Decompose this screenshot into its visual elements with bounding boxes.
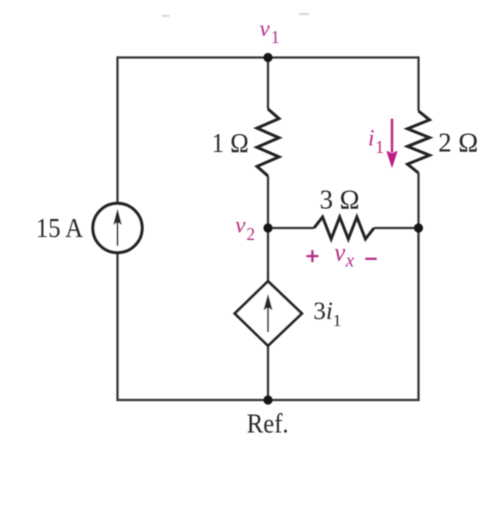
node v1 junction dot <box>263 53 272 62</box>
wire right lower (2-ohm resistor to bottom rail) <box>417 173 419 401</box>
node right junction dot (3-ohm to right branch) <box>414 223 423 232</box>
label vx plus sign <box>306 250 318 262</box>
wire 3-ohm resistor to right branch <box>374 227 419 229</box>
svg-text:15 A: 15 A <box>36 213 84 243</box>
svg-text:Ref.: Ref. <box>247 408 289 438</box>
stray print mark left <box>162 15 170 17</box>
wire left upper (top rail to current source) <box>116 56 118 204</box>
wire v2 to dependent source top <box>267 228 269 282</box>
label 3 ohm <box>320 184 360 214</box>
node v2 junction dot <box>263 223 272 232</box>
resistor R2 2-ohm (vertical zigzag) <box>408 111 430 173</box>
wire v2 node to 3-ohm resistor <box>268 227 314 229</box>
wire right upper (top rail to 2-ohm resistor) <box>417 56 419 111</box>
wire left lower (current source to bottom rail) <box>116 253 118 402</box>
current i1 arrow (magenta, downward) <box>387 119 397 167</box>
svg-text:1 Ω: 1 Ω <box>212 128 249 158</box>
label 2 ohm <box>438 128 478 158</box>
label 3i1 (dependent source value) <box>313 298 341 330</box>
resistor R3 3-ohm (horizontal zigzag) <box>314 217 374 239</box>
dependent current source 3i1 (diamond) <box>235 281 302 345</box>
resistor R1 1-ohm (vertical zigzag) <box>257 109 279 176</box>
node reference junction dot <box>263 395 272 404</box>
wire bottom (reference rail) <box>118 399 419 401</box>
svg-text:2 Ω: 2 Ω <box>438 128 478 158</box>
wire top (node v1 rail) <box>118 56 419 58</box>
label node voltage v1 <box>260 16 280 47</box>
dependent source arrow <box>264 295 272 332</box>
label voltage vx <box>334 240 354 272</box>
label current i1 <box>368 125 384 157</box>
wire middle upper (v1 node to 1-ohm resistor) <box>267 58 269 110</box>
wire middle (1-ohm resistor to v2 node) <box>267 176 269 228</box>
svg-text:3 Ω: 3 Ω <box>320 184 360 214</box>
label vx minus sign <box>365 258 376 260</box>
wire dependent source bottom to reference rail <box>267 345 269 400</box>
stray print mark right <box>299 13 309 15</box>
label 15 A <box>36 213 84 243</box>
current source I1 arrow <box>114 210 122 246</box>
label 1 ohm <box>212 128 249 158</box>
label node voltage v2 <box>235 213 255 244</box>
label Ref. <box>247 408 289 438</box>
current source I1 15 A (circle) <box>93 203 142 252</box>
